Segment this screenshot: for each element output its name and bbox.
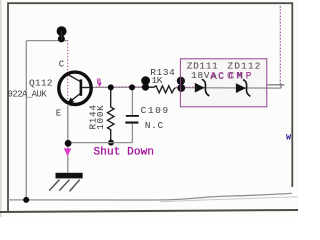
wire: stub between pads (61, 31, 63, 40)
svg-text:922A_AUK: 922A_AUK (8, 89, 48, 99)
resistor R134 (horizontal) (146, 86, 176, 93)
junction: emitter node (65, 140, 72, 147)
highlight box: AC comp section (magenta) (180, 59, 266, 107)
svg-text:100K: 100K (95, 105, 106, 130)
svg-text:W: W (286, 132, 292, 142)
ground (chassis) (49, 173, 82, 192)
wire: bottom rail echo line (160, 197, 298, 202)
node pair: R134 left (141, 76, 150, 85)
wire: bottom rail (8, 193, 292, 200)
junction: R144 top on base net (108, 84, 114, 90)
wire: emitter vertical to ground (67, 104, 69, 173)
svg-text:N.C: N.C (145, 120, 164, 131)
svg-text:Q112: Q112 (29, 78, 53, 89)
node pair: R134 right at box edge (177, 77, 185, 85)
capacitor C109 (125, 87, 139, 142)
svg-text:C: C (59, 60, 65, 70)
net highlight: right vertical dotted magenta (279, 6, 281, 85)
svg-text:1K: 1K (152, 75, 163, 86)
wire: emitter node horizontal (68, 142, 133, 144)
svg-text:OMP: OMP (227, 70, 252, 81)
zener ZD112 (236, 80, 250, 97)
node: top junction (small) (58, 35, 65, 42)
junction: C109 top on base net (129, 84, 135, 90)
wire: right-end jog (267, 85, 284, 88)
net flag: Shut Down arrow (magenta) (64, 148, 72, 156)
svg-text:Shut Down: Shut Down (94, 147, 155, 159)
net highlight: dotted magenta along base net (96, 86, 154, 88)
junction: bottom rail / left vertical (23, 197, 29, 203)
svg-text:E: E (56, 108, 61, 118)
wire: main base net horizontal (91, 86, 154, 88)
svg-text:18V: 18V (191, 70, 210, 81)
svg-text:C109: C109 (141, 105, 169, 116)
wire: top horizontal segment (26, 40, 67, 42)
net highlight: collector-to-emitter dotted magenta (67, 40, 69, 148)
resistor R144 (vertical) (108, 87, 115, 142)
node: top pad (large) (57, 26, 67, 36)
transistor Q112 (59, 72, 92, 104)
wire: left vertical drop (25, 41, 27, 200)
junction: R144 bottom (108, 140, 114, 146)
zener ZD111 (195, 79, 209, 96)
